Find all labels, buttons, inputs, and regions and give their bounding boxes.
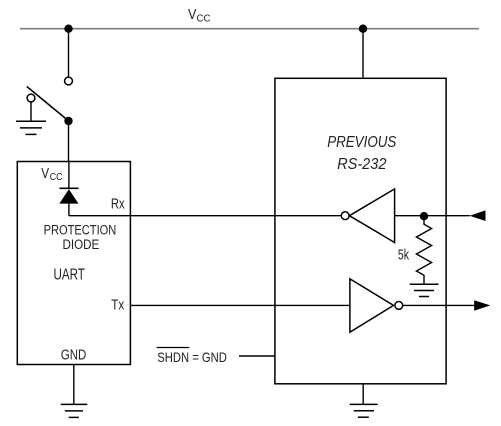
- svg-text:RS-232: RS-232: [337, 156, 386, 173]
- svg-text:V: V: [188, 6, 196, 23]
- svg-text:SHDN = GND: SHDN = GND: [157, 349, 227, 365]
- svg-text:GND: GND: [61, 347, 87, 364]
- svg-text:CC: CC: [197, 12, 211, 24]
- svg-text:Rx: Rx: [111, 196, 125, 213]
- svg-text:PREVIOUS: PREVIOUS: [327, 134, 396, 151]
- svg-text:UART: UART: [54, 267, 86, 284]
- svg-text:DIODE: DIODE: [63, 237, 100, 253]
- svg-text:CC: CC: [50, 172, 63, 183]
- svg-text:Tx: Tx: [111, 297, 124, 314]
- svg-text:V: V: [41, 166, 49, 182]
- svg-text:5k: 5k: [398, 247, 409, 264]
